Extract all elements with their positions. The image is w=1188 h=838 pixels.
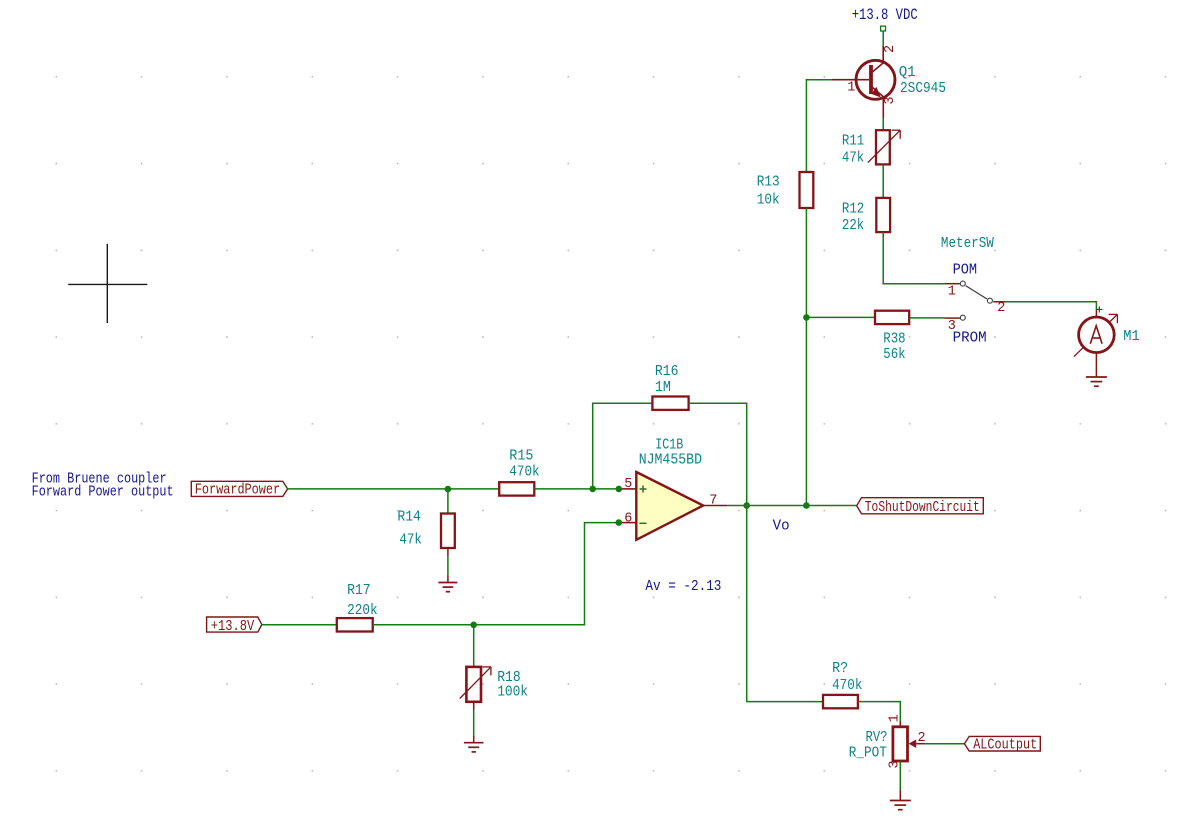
switch common contact circle — [987, 298, 992, 303]
svg-text:2: 2 — [918, 731, 926, 746]
svg-text:10k: 10k — [757, 192, 780, 208]
svg-text:2: 2 — [997, 301, 1005, 316]
R18 ground pin segment — [473, 736, 475, 743]
svg-text:470k: 470k — [509, 465, 539, 481]
op-amp plus sign inside body — [640, 486, 647, 493]
svg-text:+13.8V: +13.8V — [211, 619, 255, 635]
svg-text:Av = -2.13: Av = -2.13 — [645, 579, 721, 595]
potentiometer RV? body — [893, 727, 908, 761]
svg-text:RV?: RV? — [866, 730, 888, 746]
wire opamp output to ToShutDownCircuit — [727, 505, 856, 507]
svg-text:M1: M1 — [1123, 329, 1140, 345]
wire Q1 base to R13 top corner — [806, 79, 831, 81]
potentiometer ground pin segment — [899, 790, 901, 801]
svg-text:Q1: Q1 — [899, 65, 916, 81]
svg-text:IC1B: IC1B — [655, 438, 683, 454]
svg-text:22k: 22k — [842, 218, 864, 234]
junction at output and feedback — [743, 502, 750, 509]
switch pin 2 stub — [993, 301, 1006, 303]
svg-text:100k: 100k — [497, 685, 528, 701]
transistor Q1 base pin 1 — [832, 79, 869, 81]
potentiometer RV? pin 1 stub — [899, 721, 901, 727]
svg-text:2: 2 — [883, 45, 898, 53]
wire R? to potentiometer pin 1 — [858, 702, 900, 721]
junction at output and R13 leg — [803, 502, 810, 509]
resistor R? body — [823, 695, 858, 708]
svg-text:R12: R12 — [842, 201, 864, 217]
transistor Q1 emitter pin 3 with arrow — [873, 87, 884, 118]
R14 bottom pin stub — [447, 548, 449, 556]
wire R38 to switch pin 3 — [909, 317, 944, 319]
wire wiper to ALCoutput — [925, 743, 964, 745]
junction at R14 top — [445, 486, 452, 493]
potentiometer wiper arrow pin 2 — [909, 740, 917, 748]
svg-text:ForwardPower: ForwardPower — [195, 483, 281, 499]
meter M1 plus pin — [1095, 309, 1097, 317]
wire +13.8V to R17 — [262, 624, 337, 626]
svg-text:PROM: PROM — [953, 331, 987, 347]
svg-text:ALCoutput: ALCoutput — [973, 738, 1037, 754]
R11 trimmer arrow — [868, 130, 900, 162]
ground under potentiometer — [890, 801, 911, 810]
switch SW pin 1 stub — [944, 283, 960, 285]
R14 ground pin segment — [447, 575, 449, 583]
svg-text:1M: 1M — [655, 380, 671, 396]
meter M1 diagonal arrow — [1074, 314, 1118, 356]
meter M1 letter A — [1090, 326, 1102, 344]
wire R14 to ground — [447, 556, 449, 575]
svg-text:47k: 47k — [842, 151, 864, 167]
svg-text:1: 1 — [847, 81, 855, 96]
op-amp minus sign inside body — [640, 522, 647, 524]
svg-text:R18: R18 — [497, 670, 521, 686]
resistor R13 body — [800, 172, 814, 208]
meter M1 body circle — [1079, 317, 1115, 353]
wire opamp minus input leg — [474, 523, 619, 625]
resistor R38 body — [875, 311, 909, 324]
global label ForwardPower flag — [191, 481, 287, 496]
svg-text:R16: R16 — [655, 364, 679, 380]
junction at minus pin — [616, 519, 623, 526]
svg-text:Vo: Vo — [773, 519, 790, 535]
wire R16 to output node — [689, 403, 747, 505]
svg-text:MeterSW: MeterSW — [941, 236, 994, 252]
junction feedback at plus input — [589, 486, 596, 493]
svg-text:7: 7 — [709, 493, 717, 508]
R18 trimmer arrow — [460, 667, 491, 699]
ground under R14 — [438, 583, 457, 592]
svg-text:R15: R15 — [509, 448, 533, 464]
junction at R18 top — [470, 622, 477, 629]
ground under R18 — [464, 743, 484, 752]
resistor R11 body (trimmer) — [876, 130, 890, 164]
resistor R12 body — [876, 198, 890, 232]
svg-text:R11: R11 — [842, 134, 864, 150]
wire feedback left vertical — [593, 403, 653, 489]
svg-text:POM: POM — [953, 262, 978, 278]
global label +13.8V flag — [207, 617, 262, 632]
meter M1 plus sign — [1096, 306, 1102, 312]
op-amp minus input pin stub — [622, 522, 636, 524]
switch pin 3 stub — [944, 317, 960, 319]
R18 bottom pin stub — [473, 702, 475, 710]
ground under meter M1 — [1086, 377, 1107, 386]
wire power to Q1 collector — [882, 31, 884, 46]
power symbol +13.8 VDC square pin — [881, 26, 886, 31]
junction at plus pin — [616, 486, 623, 493]
switch throw bar — [966, 286, 987, 299]
wire Q1 emitter to R11 — [882, 118, 884, 130]
svg-text:220k: 220k — [347, 603, 378, 619]
svg-text:R38: R38 — [883, 332, 905, 348]
global label ALCoutput flag — [964, 736, 1040, 751]
svg-text:5: 5 — [624, 477, 632, 492]
wire R12 to switch pin 1 — [883, 232, 944, 284]
transistor Q1 base bar — [869, 65, 873, 94]
transistor Q1 body circle — [856, 60, 895, 99]
junction node R38 tee — [803, 314, 810, 321]
svg-text:+13.8 VDC: +13.8 VDC — [852, 6, 918, 24]
op-amp output pin stub — [703, 505, 727, 507]
svg-text:NJM455BD: NJM455BD — [639, 452, 702, 468]
op-amp plus input pin stub — [622, 488, 636, 490]
wire switch pin 2 to meter M1 — [1006, 302, 1097, 309]
wire R11 to R12 — [882, 164, 884, 198]
wire node down to R18 — [473, 625, 475, 667]
svg-text:3: 3 — [883, 96, 898, 104]
switch pin 3 contact circle — [960, 315, 965, 320]
svg-text:R13: R13 — [757, 175, 780, 191]
svg-text:56k: 56k — [883, 347, 905, 363]
wire output node down to R? — [747, 506, 823, 702]
svg-text:R17: R17 — [347, 583, 371, 599]
wire R13 top vertical — [805, 79, 807, 172]
op-amp IC1B triangle body — [636, 472, 703, 540]
svg-text:R14: R14 — [397, 510, 421, 526]
resistor R18 body (trimmer) — [466, 667, 481, 702]
resistor R17 body — [337, 618, 373, 631]
global label ToShutDownCircuit flag — [857, 498, 984, 514]
svg-text:47k: 47k — [399, 532, 422, 548]
svg-text:R_POT: R_POT — [849, 745, 887, 761]
svg-text:470k: 470k — [832, 678, 862, 694]
svg-text:Forward Power output: Forward Power output — [32, 484, 174, 500]
svg-text:ToShutDownCircuit: ToShutDownCircuit — [865, 500, 980, 516]
wire node to R38 — [806, 316, 875, 318]
svg-text:1: 1 — [887, 714, 902, 722]
meter M1 ground stem — [1095, 353, 1097, 377]
wire junction down to R14 — [447, 489, 449, 513]
sheet origin crosshair — [68, 244, 147, 323]
resistor R14 body — [441, 514, 455, 549]
svg-text:1: 1 — [948, 285, 956, 300]
wire ForwardPower to R15 — [288, 488, 500, 490]
svg-text:6: 6 — [624, 511, 632, 526]
resistor R15 body — [499, 482, 534, 495]
svg-text:2SC945: 2SC945 — [900, 81, 946, 97]
resistor R16 body — [652, 397, 688, 410]
wire R17 to R18 node — [373, 624, 474, 626]
wire R18 to ground — [473, 710, 475, 736]
wire potentiometer pin 3 to ground — [899, 761, 901, 790]
switch pin 1 contact circle — [960, 281, 965, 286]
transistor Q1 collector pin 2 — [873, 46, 884, 72]
svg-text:R?: R? — [832, 661, 848, 677]
wire R15 to opamp plus input — [534, 488, 622, 490]
wire R13 bottom to output node — [805, 208, 807, 506]
